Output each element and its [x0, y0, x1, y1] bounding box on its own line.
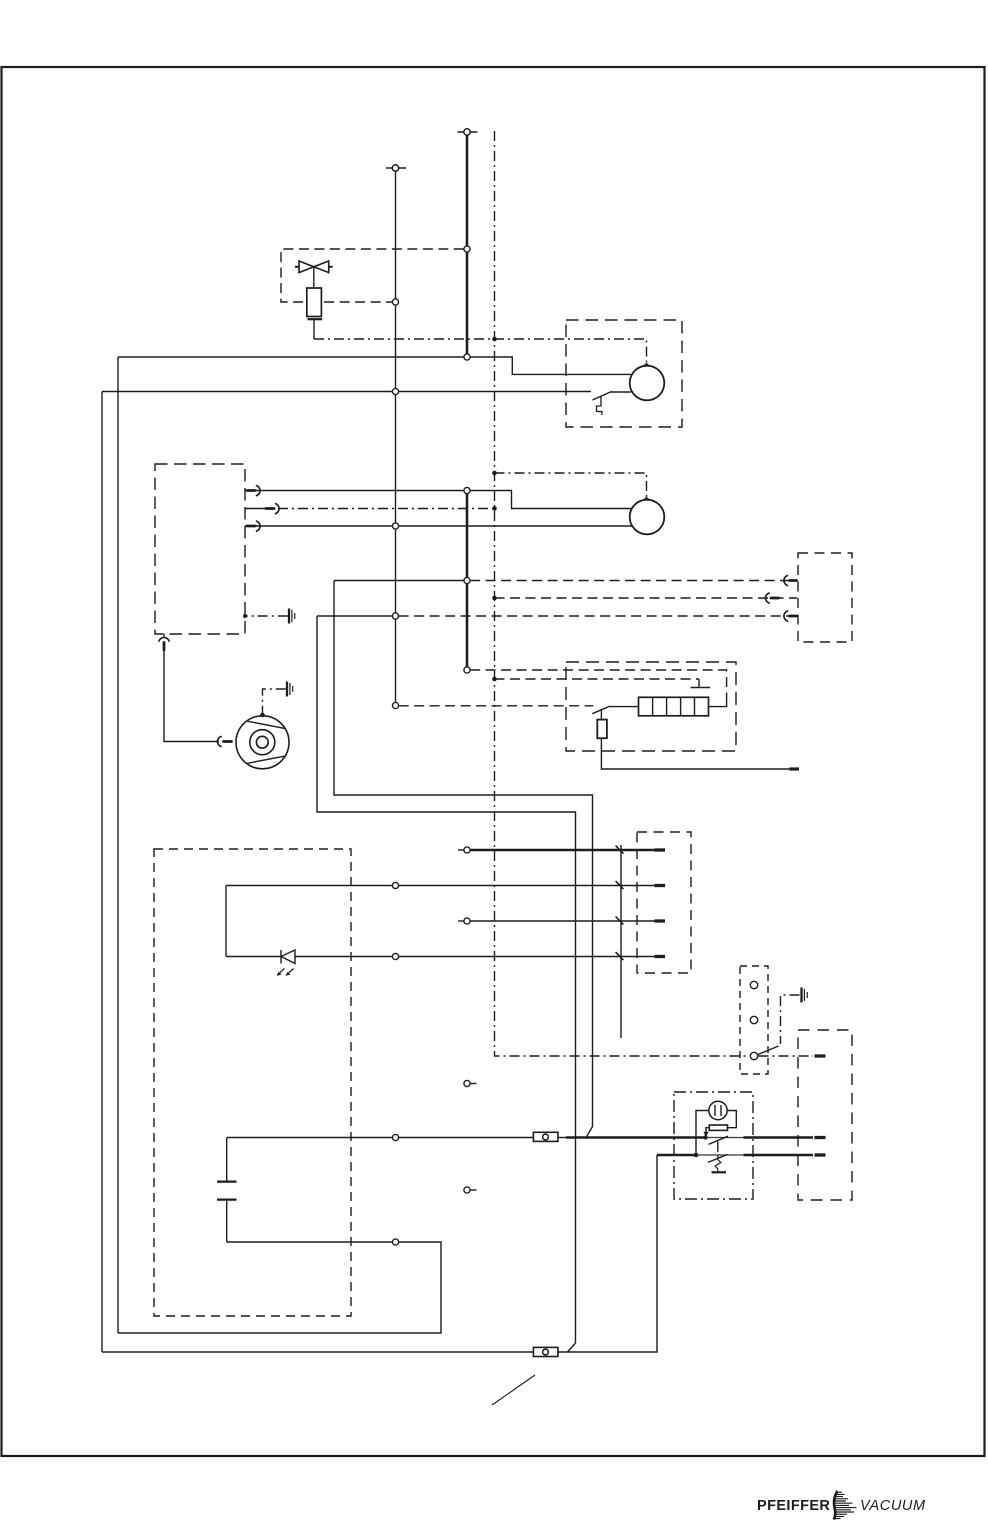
connector pin arrow output 1	[247, 485, 260, 495]
interface box X5 dashed	[798, 1030, 852, 1200]
wire jog conductor B into bottom loop	[568, 1343, 576, 1352]
wire dash-dot to motor M2 top	[495, 473, 647, 497]
wire supply to motor M1 upper	[118, 357, 632, 374]
wire dashed from L2 node to heater feed	[470, 670, 726, 699]
wire dashed to interface box pin1	[470, 580, 797, 582]
node junction circle bus1137	[392, 1134, 398, 1140]
wire controller output 2 dash-dot	[245, 503, 495, 513]
connector pin arrow output 3	[247, 521, 260, 531]
node junction circle L1/616	[392, 613, 398, 619]
terminal bar X5-1	[815, 1054, 826, 1057]
wire supply to motor M1 lower via switch	[102, 391, 591, 393]
motor M1 dashed enclosure	[566, 320, 682, 427]
wire gauge left leg	[696, 1111, 709, 1156]
wire controller output 3	[245, 525, 632, 527]
wire bold bus 1155 right part	[744, 1154, 814, 1157]
node junction circle L2/490	[464, 487, 470, 493]
shield tick 4	[616, 952, 624, 960]
turbopump TMP symbol	[236, 716, 289, 769]
terminal X2 open circle with ticks	[458, 129, 478, 135]
node junction circle L2/249	[464, 246, 470, 252]
terminal circle X6-1	[750, 981, 757, 988]
wire bold bus 1155	[657, 1154, 697, 1157]
node dot gauge left	[694, 1153, 699, 1158]
wire phase-bus L2 vertical (bold)	[466, 132, 469, 357]
cable shield line	[620, 845, 622, 1038]
switch S3 contact lower	[697, 1154, 744, 1156]
wire controller output 1	[245, 490, 464, 492]
capacitor C1	[217, 1138, 237, 1243]
terminal bar X4-4	[655, 955, 666, 958]
wire controller to pump TMP	[164, 650, 219, 742]
ground GND3	[802, 988, 808, 1003]
wire conductor A run	[334, 581, 593, 1128]
switch S2 contact	[592, 706, 638, 714]
wire LED loop vertical	[225, 886, 227, 957]
logo feather hatching	[834, 1492, 857, 1518]
node junction circle L2/670	[464, 667, 470, 673]
control bus dash-dot vertical	[495, 131, 750, 1056]
wire dash-dot to ground GND3	[781, 995, 800, 1044]
terminal circle X6-3	[750, 1052, 757, 1059]
connector strip X6 dashed	[740, 966, 768, 1074]
node junction circle L2/581	[464, 577, 470, 583]
wire bold to X4-1	[458, 847, 655, 853]
thermal contact B1	[691, 679, 711, 688]
valve V1 dashed enclosure	[281, 249, 464, 302]
terminal bar X4-3	[655, 919, 666, 922]
terminal bar X5-3	[815, 1153, 826, 1156]
pressure switch box dash-dot	[674, 1092, 753, 1199]
terminal bar X5-2	[815, 1136, 826, 1139]
remote box dashed enclosure	[154, 849, 351, 1316]
node dot at motor M1 top	[644, 363, 649, 368]
wire heater feed down	[709, 699, 727, 707]
wire conductor A top	[334, 580, 464, 582]
wire dashed to interface box pin3	[399, 615, 797, 617]
wire bold bus 1137	[558, 1137, 566, 1139]
terminal circle stub y1083	[464, 1080, 477, 1086]
wire left inner loop conductor	[117, 357, 119, 1333]
node dot on bus 1137	[703, 1135, 707, 1139]
terminal box X4 dashed	[637, 832, 691, 973]
node junction dots on control bus	[492, 337, 497, 682]
heater R2 element	[639, 697, 709, 716]
terminal bar X4-1	[655, 848, 666, 851]
node junction circle L1/705	[392, 702, 398, 708]
wire resistor to bus junction	[706, 1128, 709, 1133]
connector arrow into controller bottom	[159, 634, 169, 651]
node junction circle L1/391	[392, 388, 398, 394]
wire dash-dot stub to terminal bar in right box X5	[759, 1055, 814, 1057]
terminal circle X6-2	[750, 1016, 757, 1023]
motor M1 circle	[630, 366, 665, 401]
switch S1 thermal in motor M1	[593, 392, 632, 416]
node junction circle on X4-4 wire	[392, 953, 398, 959]
wire gauge right leg	[727, 1111, 736, 1128]
wire bold bus 1137 right part	[744, 1136, 814, 1139]
wire left outer loop conductor	[101, 392, 103, 1353]
node junction circle return1242	[392, 1239, 398, 1245]
wire bottom loop 1352	[102, 1351, 534, 1353]
node dot at motor M2 top	[644, 497, 649, 502]
wire to X4-3	[458, 918, 655, 924]
solenoid coil Y1	[307, 288, 322, 339]
switch S3 contact upper	[707, 1137, 744, 1139]
switch S3 link	[717, 1142, 719, 1152]
terminal bar K1 output	[790, 767, 800, 770]
arrow into interface box pin1	[784, 575, 797, 585]
node junction circle L1/302	[392, 299, 398, 305]
wire step to motor M2 upper	[470, 491, 632, 509]
shield tick 2	[616, 881, 624, 889]
wire dashed control to thermal contact	[495, 678, 700, 680]
node junction circle on X4-2 wire	[392, 882, 398, 888]
wire to X4-2 from LED box	[226, 885, 655, 887]
wire dashed to interface box pin2	[495, 597, 798, 599]
terminal bar X4-2	[655, 884, 666, 887]
terminal circle stub y1190	[464, 1187, 477, 1193]
wire capacitor bottom return	[118, 1242, 441, 1333]
relay box K1 dashed enclosure	[566, 662, 736, 751]
wire dashed from L1 node to switch S2	[399, 705, 594, 707]
gauge P1 circle	[709, 1101, 727, 1119]
motor M2 circle	[630, 500, 665, 535]
svg-text:VACUUM: VACUUM	[860, 1498, 926, 1514]
valve V1 body	[295, 261, 333, 288]
annotation leader line	[492, 1375, 535, 1405]
resistor R1	[597, 711, 607, 739]
connector pin arrow at pump	[217, 736, 231, 746]
wire jog conductor A into bus	[587, 1127, 593, 1137]
wire phase-bus L1 vertical	[395, 168, 397, 705]
ground GND4 in pressure switch	[712, 1155, 727, 1172]
ground GND1 at controller	[243, 609, 295, 624]
wire to X4-4 from LED	[226, 956, 655, 958]
interface box X3 dashed	[798, 553, 852, 642]
wire capacitor top bus to connector	[227, 1137, 534, 1139]
node junction circle L2/357	[464, 354, 470, 360]
logo PFEIFFER VACUUM	[757, 1491, 926, 1520]
shield tick 3	[616, 917, 624, 925]
arrow into interface box pin3	[784, 611, 797, 621]
wire conductor B run	[317, 616, 576, 1343]
connector J2 inline	[533, 1347, 558, 1356]
resistor R3	[709, 1125, 727, 1130]
logo feather spine	[834, 1491, 838, 1520]
terminal X1 open circle with ticks	[386, 165, 406, 171]
shield tick 1	[616, 846, 624, 854]
wire resistor R1 to terminal	[601, 738, 789, 769]
wire dash-dot valve control to motor M1	[314, 339, 647, 363]
wire conductor B top	[317, 615, 392, 617]
connector J1 inline	[533, 1132, 558, 1141]
wire bottom loop right of J2	[557, 1155, 657, 1352]
controller U1 dashed box	[155, 464, 245, 634]
node junction circle L1/526	[392, 523, 398, 529]
ground GND2 at pump	[260, 682, 293, 718]
arrow into interface box pin2	[766, 593, 779, 603]
LED D1	[277, 950, 295, 976]
svg-text:PFEIFFER: PFEIFFER	[757, 1498, 830, 1514]
switch arm to ground GND3	[758, 1046, 779, 1055]
